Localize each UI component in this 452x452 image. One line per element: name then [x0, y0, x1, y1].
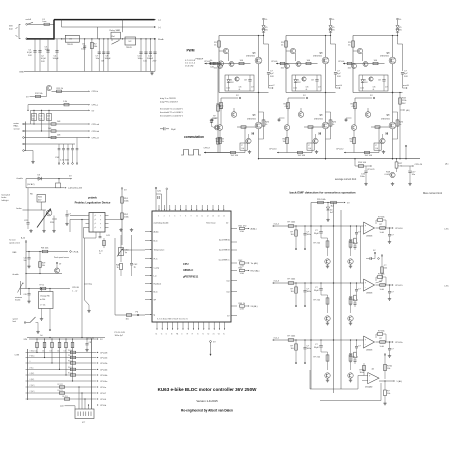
zener D phase A high — [262, 26, 265, 29]
fuse F1 5A — [28, 23, 55, 25]
wire hall second line — [28, 104, 88, 106]
resistor Rin phase B low — [298, 151, 303, 153]
potentiometer throttle — [20, 281, 22, 295]
svg-text:C?: C? — [350, 248, 352, 250]
svg-text:brake: brake — [2, 197, 7, 199]
wire commutation to low side A — [204, 152, 226, 154]
svg-text:mot-3: mot-3 — [274, 280, 280, 283]
resistor Rg1 phase A high — [213, 62, 218, 64]
zener D phase C high — [396, 26, 399, 29]
svg-text:GND: GND — [19, 71, 24, 73]
pedelec left pins — [86, 215, 90, 217]
node mot-3 input — [273, 282, 275, 283]
svg-text:50V: 50V — [270, 76, 274, 78]
resistor Rin phase C low — [365, 151, 370, 153]
svg-text:7: 7 — [180, 216, 181, 218]
svg-text:2SK2941: 2SK2941 — [380, 56, 390, 58]
svg-text:50V: 50V — [28, 55, 32, 57]
svg-text:Rel: Rel — [112, 36, 116, 38]
capacitor filter mot-1 — [304, 339, 305, 340]
svg-text:PC-10 C43: PC-10 C43 — [115, 332, 126, 334]
svg-text:24 (AL): 24 (AL) — [251, 305, 258, 308]
svg-text:1-4d: 1-4d — [380, 346, 384, 348]
sub network box phase B high — [292, 75, 321, 91]
wire PWM input — [205, 63, 219, 65]
connector wires to CPU — [28, 351, 97, 353]
svg-text:11: 11 — [201, 216, 203, 218]
svg-text:A-2d: A-2d — [99, 250, 103, 253]
ground Q sat phase A low — [249, 150, 251, 152]
note change R6 box — [39, 292, 54, 309]
resistor R41 pin20 — [240, 227, 245, 229]
svg-text:Temperature: Temperature — [154, 248, 165, 251]
capacitor c2 mot-2 — [356, 226, 358, 232]
wire bemf vertical rail C — [340, 210, 342, 389]
svg-text:R09: R09 — [42, 263, 45, 265]
svg-text:2SK2941: 2SK2941 — [381, 119, 391, 121]
svg-text:sensor: sensor — [14, 127, 21, 130]
resistor R14 — [64, 104, 69, 106]
svg-text:78L09: 78L09 — [67, 44, 74, 46]
svg-text:4k: 4k — [306, 89, 308, 91]
capacitor C12 — [150, 39, 152, 72]
resistor feedback mot-3 — [377, 276, 382, 279]
connector bracket — [27, 349, 29, 400]
svg-text:20: 20 — [226, 223, 228, 225]
ground pair1 mot-3 — [327, 322, 329, 324]
ground symbol power — [151, 71, 153, 73]
wire hall 5V supply line — [31, 109, 89, 111]
svg-text:threshold T1 = 0.0024 V: threshold T1 = 0.0024 V — [160, 108, 183, 111]
svg-text:(+): (+) — [158, 20, 161, 22]
svg-text:25V: 25V — [153, 61, 157, 63]
svg-text:CPU-ah: CPU-ah — [92, 124, 100, 126]
svg-text:R? 100k: R? 100k — [288, 279, 297, 281]
Vcc terminal phase A high — [263, 18, 265, 20]
ground out mot-3 — [389, 297, 391, 299]
transistor Q lower phase C low — [351, 125, 357, 131]
svg-text:36mA: 36mA — [158, 38, 164, 41]
svg-text:throttle: throttle — [13, 273, 20, 276]
boxed label phase C low — [374, 143, 381, 150]
svg-text:In: In — [181, 334, 182, 336]
op-amp U4 mot-1 — [364, 336, 375, 348]
svg-text:CPU-16: CPU-16 — [395, 228, 403, 230]
resistor Rg2 phase B high — [306, 62, 311, 64]
wire bottom rail phase B high — [286, 92, 336, 94]
svg-text:KU63 e-bike BLDC motor control: KU63 e-bike BLDC motor controller 36V 25… — [158, 387, 258, 392]
ground trimmer 1 — [120, 228, 122, 230]
svg-text:Q7b: Q7b — [239, 87, 242, 89]
svg-text:1-9d: 1-9d — [240, 231, 244, 233]
capacitor cluster hall — [58, 144, 60, 148]
resistor Rg1 phase B high — [280, 62, 285, 64]
svg-text:50V: 50V — [404, 76, 408, 78]
resistor feedback chain mot-1 — [354, 352, 357, 358]
node phase output mot-G — [336, 87, 339, 89]
svg-text:Q-D: Q-D — [60, 406, 64, 408]
wire pedelec left bus — [70, 219, 86, 221]
svg-text:0 (NC): 0 (NC) — [30, 379, 35, 381]
capacitor C8 — [103, 39, 105, 72]
svg-text:R? 36k: R? 36k — [378, 274, 385, 276]
wire left vertical phase B high — [285, 36, 287, 93]
transistor Q upper phase A low — [231, 112, 237, 118]
wire gate phase B low — [304, 126, 323, 128]
resistor comparator lower — [384, 381, 386, 390]
svg-text:CPU-28: CPU-28 — [100, 352, 108, 354]
wire hall riser — [27, 105, 29, 111]
svg-text:1-36C: 1-36C — [444, 229, 450, 231]
relay switch contact — [112, 41, 119, 45]
svg-text:13V: 13V — [297, 82, 301, 84]
svg-text:(+)throttle(+5V): (+)throttle(+5V) — [68, 187, 82, 190]
svg-text:5 (AL): 5 (AL) — [397, 380, 403, 383]
svg-text:throttle: throttle — [17, 177, 24, 180]
svg-text:CPU-7: CPU-7 — [100, 393, 107, 395]
resistor R13 — [57, 90, 62, 92]
transistor Q13 — [218, 61, 223, 66]
CPU left pins — [145, 231, 152, 233]
op-amp U4 mot-3 — [364, 279, 375, 291]
svg-text:1k5d: 1k5d — [360, 372, 364, 374]
ground C9 — [86, 348, 88, 350]
capacitor C3 100n — [47, 39, 49, 72]
svg-text:q: q — [100, 223, 101, 225]
svg-text:Q7b: Q7b — [306, 87, 309, 89]
ground out mot-2 — [389, 240, 391, 242]
capacitor C22 — [27, 218, 29, 222]
zener Z4 — [327, 203, 329, 207]
wire source phase C high — [392, 64, 394, 93]
resistor R22 phase C low — [354, 98, 356, 111]
transistor pair2 mot-2 — [348, 259, 353, 264]
wire bemf vertical rail B — [333, 203, 335, 394]
wire hall top line — [52, 90, 89, 92]
ground pair2 mot-1 — [350, 379, 352, 381]
ground Z4 — [327, 218, 329, 220]
node CPU-21 — [370, 165, 372, 166]
svg-text:C45: C45 — [24, 294, 27, 296]
svg-text:13V: 13V — [230, 82, 234, 84]
transistor Q sat phase B low — [313, 138, 318, 143]
svg-text:4d: 4d — [372, 368, 374, 370]
resistor R right phase B low — [330, 112, 332, 139]
ground pair1 mot-2 — [327, 265, 329, 267]
wire drain phase A high — [258, 36, 260, 58]
svg-text:R38: R38 — [349, 297, 352, 299]
svg-text:8: 8 — [185, 216, 186, 218]
wire source low phase C low — [392, 129, 394, 159]
resistor Rin mot-1 — [288, 339, 294, 342]
svg-text:100n 4µ7: 100n 4µ7 — [115, 335, 124, 337]
capacitor filter mot-3 — [304, 282, 305, 283]
svg-text:36k: 36k — [349, 356, 352, 358]
svg-text:1-3d: 1-3d — [241, 148, 244, 150]
ground pair1 mot-1 — [327, 379, 329, 381]
resistor Rgate phase B low — [308, 126, 313, 128]
wire source phase A high — [258, 64, 260, 93]
svg-text:C-only: C-only — [154, 267, 160, 269]
svg-text:R12 10k: R12 10k — [35, 93, 44, 95]
wire thick vertical — [53, 20, 55, 40]
wire input phase A low — [204, 152, 245, 154]
svg-text:1k5 100: 1k5 100 — [231, 155, 239, 157]
capacitor C17 — [409, 166, 411, 170]
svg-text:C40: C40 — [32, 115, 35, 117]
svg-text:2-3kd: 2-3kd — [293, 88, 297, 90]
resistor bias op2 — [381, 255, 383, 257]
svg-text:p1: p1 — [95, 223, 97, 225]
svg-text:CPU-bh: CPU-bh — [92, 131, 100, 133]
sub network box phase C high — [359, 75, 388, 91]
wire opamp out mot-1 — [376, 341, 392, 343]
svg-text:78L05: 78L05 — [126, 47, 133, 49]
svg-text:duty % = 78/128: duty % = 78/128 — [160, 97, 176, 100]
svg-text:p1: p1 — [95, 219, 97, 221]
svg-text:minimum: minimum — [15, 297, 23, 299]
svg-text:9: 9 — [191, 216, 192, 218]
wire input phase B low — [277, 152, 312, 154]
transistor pair1 mot-2 — [325, 259, 330, 264]
resistor R pull phase C high — [352, 41, 355, 47]
wire low bus left — [226, 152, 230, 154]
wire input phase C low — [344, 152, 379, 154]
svg-text:R? 36k: R? 36k — [378, 331, 385, 333]
svg-text:1k5 100: 1k5 100 — [298, 155, 306, 157]
resistor R45 — [126, 314, 131, 317]
transistor Q pnp phase B high — [290, 48, 295, 53]
wire source low phase A low — [258, 129, 260, 159]
wire 36V-switched line — [62, 26, 155, 28]
boxed label phase B low — [307, 143, 314, 150]
svg-text:(AL): (AL) — [445, 163, 449, 166]
terminal mid cluster 1 — [374, 252, 376, 254]
svg-text:1-9d: 1-9d — [240, 309, 244, 311]
svg-text:back EMF-A: back EMF-A — [219, 239, 230, 242]
capacitor C10 — [140, 39, 142, 72]
svg-text:0 (NC): 0 (NC) — [30, 373, 35, 375]
svg-text:HALL: HALL — [14, 125, 20, 128]
resistor Rin mot-3 — [288, 282, 294, 285]
wire pullup connections — [36, 348, 38, 353]
resistor Rgate phase C low — [375, 126, 380, 128]
switch pedelec under — [85, 300, 90, 305]
svg-text:15.6 kHz: 15.6 kHz — [185, 65, 193, 67]
resistor R pull phase B high — [285, 41, 288, 47]
svg-text:back EMF detection for sensorl: back EMF detection for sensorless operat… — [290, 190, 356, 194]
resistor Rg1 phase C high — [347, 62, 352, 64]
svg-text:Max current limit: Max current limit — [423, 191, 442, 195]
transistor Q9 brake — [46, 210, 52, 216]
resistor R31 — [217, 66, 219, 153]
svg-text:Timer base: Timer base — [206, 223, 216, 225]
svg-text:100n: 100n — [307, 291, 312, 293]
svg-text:T1: T1 — [202, 334, 204, 336]
svg-text:To reset: To reset — [9, 239, 16, 242]
wire hall C — [26, 137, 89, 139]
svg-text:36µF: 36µF — [314, 290, 319, 292]
svg-text:R?5b: R?5b — [360, 370, 366, 372]
capacitor C8 phase B high — [316, 75, 318, 79]
svg-text:12: 12 — [207, 216, 209, 218]
boxed label phase A low — [240, 143, 247, 150]
svg-text:PWM: PWM — [186, 48, 194, 52]
svg-text:(AL): (AL) — [406, 109, 410, 112]
wire drain low phase B low — [325, 93, 327, 123]
capacitor C13 — [154, 39, 156, 72]
comparator U5 2904AD — [368, 373, 379, 384]
svg-text:threshold T2 = 0.0036 V: threshold T2 = 0.0036 V — [160, 111, 183, 114]
resistor hall C 1.8k — [51, 136, 56, 138]
wire pedelec bottom — [84, 227, 86, 229]
capacitor Cin phase A low — [211, 118, 213, 122]
capacitor C sat phase C low — [386, 133, 388, 135]
svg-text:10n: 10n — [39, 119, 42, 121]
transistor Q8 hall — [46, 85, 51, 90]
resistor R30 — [210, 62, 215, 64]
wire brake out — [52, 218, 55, 220]
svg-text:CPU-4a: CPU-4a — [100, 381, 108, 383]
wire left vertical phase A high — [218, 36, 220, 93]
capacitor 36uF mot-1 — [320, 340, 322, 345]
svg-text:IF-in: IF-in — [154, 258, 158, 260]
op-amp U4 mot-2 — [364, 222, 375, 234]
svg-text:56k: 56k — [42, 265, 45, 267]
svg-text:mot: mot — [226, 279, 230, 282]
svg-text:R38: R38 — [349, 240, 352, 242]
svg-text:Pedelec Legalization Device: Pedelec Legalization Device — [75, 200, 111, 204]
resistor bias2 mot-3 — [350, 283, 352, 313]
CPU right pins — [231, 228, 237, 230]
svg-text:S-Tx In Brake PAS In Half: S-Tx In Brake PAS In Half-R Test1 X2 X1 — [157, 318, 188, 321]
svg-text:10n: 10n — [24, 260, 27, 262]
resistor R34 220k phase C — [399, 93, 401, 159]
svg-text:R? 100k: R? 100k — [288, 222, 297, 224]
svg-text:CPU-12: CPU-12 — [336, 148, 344, 150]
resistor bias1 mot-3 — [327, 295, 329, 313]
Vcc terminal phase B high — [330, 18, 332, 20]
node CPU-A PAS — [70, 251, 72, 253]
pedelec right pins — [105, 215, 109, 217]
transistor Q upper phase C low — [365, 112, 371, 118]
svg-text:watchdog disable: watchdog disable — [154, 222, 169, 225]
capacitor C23 brake — [66, 210, 68, 214]
resistor P05 b — [331, 201, 337, 204]
svg-text:36k: 36k — [349, 242, 352, 244]
svg-text:on/off: on/off — [26, 19, 32, 21]
svg-text:back EMF-C: back EMF-C — [219, 260, 230, 262]
svg-text:C41: C41 — [39, 115, 42, 117]
svg-text:PAS: PAS — [13, 251, 18, 254]
wire bemf row mot-2 — [273, 225, 365, 227]
capacitor C20 100n above CPU — [155, 189, 157, 211]
svg-text:Br-in: Br-in — [154, 291, 158, 293]
svg-text:Tst (AL): Tst (AL) — [251, 262, 259, 265]
svg-text:Tx: Tx — [161, 334, 163, 336]
svg-text:2SK2941: 2SK2941 — [313, 56, 323, 58]
resistor 12C P12 — [59, 386, 64, 388]
wire comparator feedback upper — [310, 388, 358, 390]
wire bemf vertical rail D — [360, 226, 362, 283]
svg-text:( NC): ( NC) — [30, 367, 34, 369]
wire prog to 24V — [91, 339, 93, 409]
svg-text:CPU-a: CPU-a — [92, 105, 99, 107]
svg-text:1-36C: 1-36C — [444, 286, 450, 288]
ground pair2 mot-2 — [350, 265, 352, 267]
ground pair2 mot-3 — [350, 322, 352, 324]
svg-text:CPU-1B: CPU-1B — [72, 287, 80, 289]
resistor R09 56k — [39, 251, 40, 252]
programming connector box — [75, 409, 94, 419]
wire 5V pullup row — [311, 202, 344, 204]
terminal divider out — [49, 309, 51, 330]
svg-text:R? 36k: R? 36k — [378, 217, 385, 219]
svg-text:36µF: 36µF — [171, 129, 177, 131]
resistor feedback mot-1 — [377, 333, 382, 336]
resistor 1k P10 — [64, 398, 69, 400]
svg-text:Audio: Audio — [154, 230, 159, 233]
wire throttle out line — [21, 288, 69, 290]
resistor feedback chain mot-2 — [354, 238, 357, 244]
svg-text:CPU-4b: CPU-4b — [100, 369, 108, 371]
svg-text:Version 1-9-2015: Version 1-9-2015 — [196, 399, 218, 403]
resistor feedback chain mot-3 — [354, 295, 357, 301]
svg-text:mot-B: mot-B — [403, 84, 409, 87]
svg-text:3kd: 3kd — [40, 335, 43, 337]
svg-text:CPU-4b: CPU-4b — [100, 375, 108, 377]
resistor pedelec under — [103, 238, 105, 248]
capacitor C9 top right — [86, 339, 88, 343]
svg-text:CPU-10: CPU-10 — [269, 148, 277, 150]
svg-text:15: 15 — [223, 216, 225, 218]
svg-text:q: q — [100, 219, 101, 221]
svg-text:100µF: 100µF — [105, 58, 112, 60]
svg-text:C44: C44 — [24, 258, 27, 260]
svg-text:47µF: 47µF — [27, 52, 33, 54]
ground C16 — [365, 182, 367, 184]
resistor R42 pin — [240, 262, 245, 264]
svg-text:C40: C40 — [213, 118, 216, 120]
svg-text:Relay TA82: Relay TA82 — [110, 29, 122, 32]
svg-text:CPU-20: CPU-20 — [415, 164, 423, 166]
resistor Rg2 phase A high — [239, 62, 244, 64]
svg-text:P05 100k: P05 100k — [317, 199, 327, 201]
svg-text:R?: R? — [213, 116, 215, 118]
ground C44 — [28, 265, 30, 267]
ground trimmer 2 — [131, 228, 133, 230]
capacitor C9 100uF — [107, 39, 109, 72]
capacitor legend 36uF — [160, 128, 163, 130]
wire bottom long line — [27, 337, 105, 339]
svg-text:X1: X1 — [213, 334, 215, 336]
pedelec under vertical 2 — [84, 238, 86, 300]
capacitor hall C40 boxed — [33, 110, 35, 124]
capacitor Cin phase C low — [345, 118, 347, 122]
svg-text:CPU: CPU — [183, 262, 189, 266]
transistor Q pnp phase A high — [223, 48, 228, 53]
resistor comparator pullup R26 — [384, 354, 386, 356]
switch speed limit — [26, 322, 30, 324]
svg-text:1-9d: 1-9d — [240, 273, 244, 275]
wire P4 line — [115, 314, 145, 316]
svg-text:CPU-b: CPU-b — [100, 405, 107, 407]
ground C17 — [409, 182, 411, 184]
svg-text:Te: Te — [197, 334, 199, 336]
ground brake 2 — [43, 229, 45, 231]
svg-text:CPU-2b: CPU-2b — [100, 358, 108, 360]
ground Q sat phase B low — [316, 150, 318, 152]
